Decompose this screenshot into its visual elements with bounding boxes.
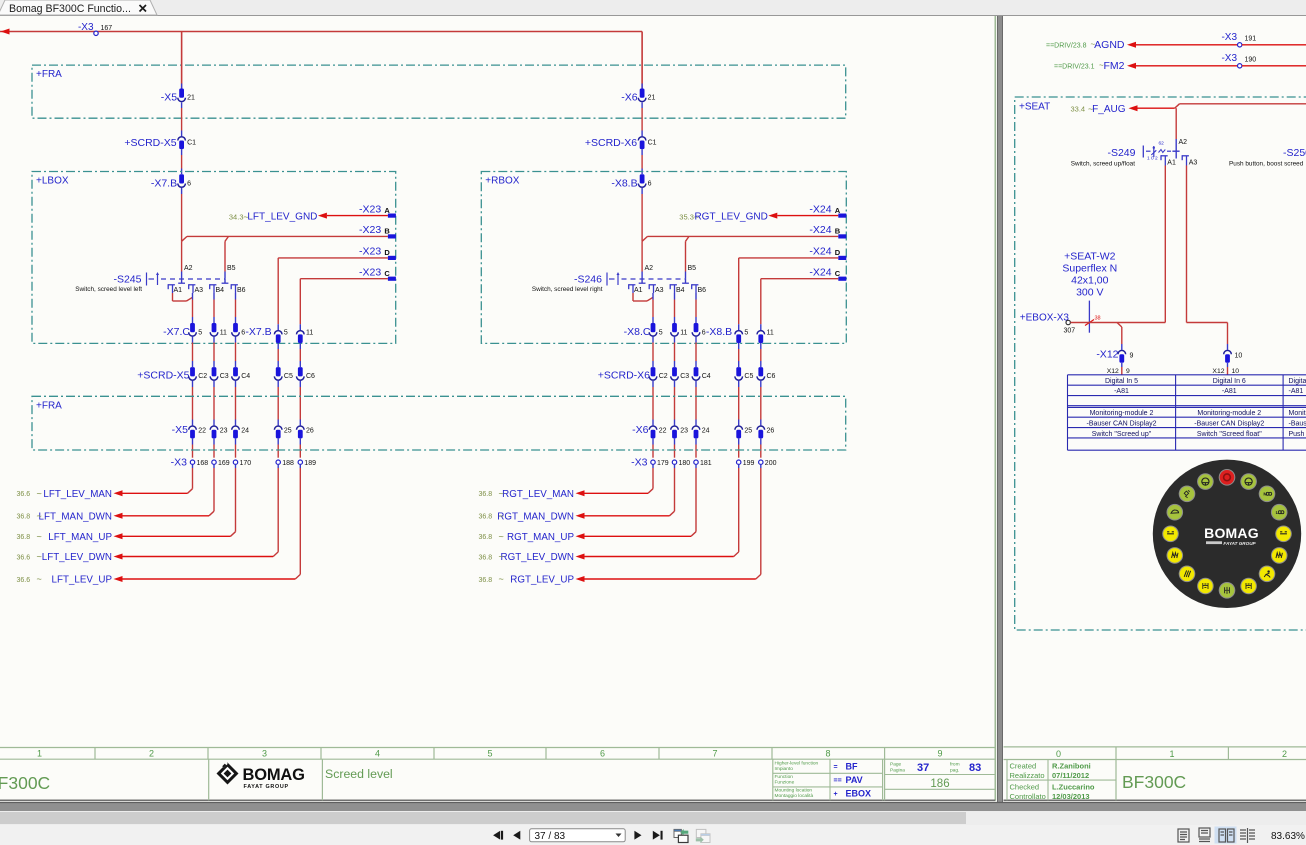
svg-text:B5: B5 <box>227 265 236 272</box>
svg-text:36.8: 36.8 <box>479 577 493 584</box>
switch -S249 (Switch, screed up/float) <box>1071 139 1198 168</box>
wire: to -X3 node <box>213 438 215 457</box>
svg-text:10: 10 <box>1232 368 1240 375</box>
svg-text:-X23: -X23 <box>359 246 381 258</box>
BOMAG control panel <box>1153 460 1301 608</box>
svg-text:C3: C3 <box>220 373 229 380</box>
location box +FRA (bottom) <box>32 396 846 450</box>
svg-text:-Bauser CAN Display2: -Bauser CAN Display2 <box>1194 421 1264 428</box>
svg-text:83.63%: 83.63% <box>1271 831 1305 842</box>
wire: to -X3 node <box>235 438 237 457</box>
connector -X23 pin A <box>359 203 396 217</box>
svg-text:FM2: FM2 <box>1104 60 1125 72</box>
svg-text:BF300C: BF300C <box>1122 772 1186 792</box>
signal arrow RGT_LEV_DWN <box>479 552 585 564</box>
svg-text:+SEAT: +SEAT <box>1019 102 1050 113</box>
wire: A1 elbow to column <box>173 293 193 301</box>
signal arrow LFT_LEV_MAN <box>17 488 123 500</box>
wire: to signal RGT_LEV_DWN <box>585 464 739 556</box>
svg-text:+SCRD-X6: +SCRD-X6 <box>598 370 650 382</box>
svg-text:BOMAG: BOMAG <box>1204 525 1259 541</box>
wire: to frame connector <box>192 381 194 426</box>
svg-text:=: = <box>834 764 838 771</box>
svg-text:191: 191 <box>1245 36 1257 43</box>
svg-text:Higher-level function: Higher-level function <box>775 760 819 766</box>
wire: to signal RGT_LEV_UP <box>585 464 761 579</box>
wire: to screed connector <box>652 337 654 368</box>
svg-text:C: C <box>835 269 841 278</box>
connector +SCRD-X5 pins C2-C6 <box>137 367 315 381</box>
svg-text:~: ~ <box>37 552 42 562</box>
svg-text:11: 11 <box>306 330 313 337</box>
svg-text:+: + <box>834 791 838 798</box>
signal arrow LFT_LEV_UP <box>17 574 123 586</box>
svg-text:==DRIV/23.8: ==DRIV/23.8 <box>1046 42 1087 49</box>
svg-text:BF: BF <box>846 762 858 772</box>
wire: to frame connector <box>213 381 215 426</box>
svg-text:+SCRD-X5: +SCRD-X5 <box>124 137 176 149</box>
svg-text:179: 179 <box>657 460 669 467</box>
connector -X12 pin 9 <box>1096 349 1133 363</box>
svg-text:Screed level: Screed level <box>325 767 393 781</box>
svg-text:38: 38 <box>1095 316 1101 322</box>
wire: switch feed to -X23 B <box>182 236 388 241</box>
svg-text:181: 181 <box>700 460 712 467</box>
svg-text:Bomag BF300C Functio...: Bomag BF300C Functio... <box>9 3 131 15</box>
connector -X23 pin B <box>359 224 396 238</box>
svg-text:A3: A3 <box>655 287 664 294</box>
svg-text:36.8: 36.8 <box>479 554 493 561</box>
svg-text:6: 6 <box>187 181 191 188</box>
svg-text:42x1,00: 42x1,00 <box>1071 275 1109 287</box>
svg-text:189: 189 <box>304 460 316 467</box>
right page background <box>1003 16 1306 802</box>
svg-text:300 V: 300 V <box>1076 287 1103 299</box>
signal arrow LFT_LEV_GND <box>229 212 388 223</box>
svg-text:07/11/2012: 07/11/2012 <box>1052 771 1089 780</box>
svg-text:Pagina: Pagina <box>890 768 905 774</box>
node +EBOX-X3 307 <box>1020 312 1075 334</box>
svg-text:-X6: -X6 <box>621 92 638 104</box>
wire: to -X3 node <box>299 438 301 457</box>
pin designators X12 9 / X12 10 <box>1107 368 1240 375</box>
svg-text:6: 6 <box>600 749 605 759</box>
wire: A1 drop <box>1164 166 1166 323</box>
wire: to frame connector <box>235 381 237 426</box>
right column numbers 0 1 2 <box>1056 749 1287 759</box>
svg-text:168: 168 <box>197 460 209 467</box>
svg-text:C1: C1 <box>648 140 657 147</box>
svg-text:22: 22 <box>198 428 206 435</box>
svg-text:37: 37 <box>917 762 929 774</box>
signal arrow RGT_LEV_UP <box>479 574 585 586</box>
signal arrow RGT_MAN_UP <box>479 531 585 543</box>
svg-text:-Bauser CAN Display2: -Bauser CAN Display2 <box>1086 421 1156 428</box>
svg-text:26: 26 <box>306 428 314 435</box>
svg-text:-X24: -X24 <box>809 246 831 258</box>
wire: to screed connector <box>738 343 740 367</box>
svg-text:-X3: -X3 <box>171 456 188 468</box>
svg-text:RGT_MAN_UP: RGT_MAN_UP <box>507 532 574 543</box>
wire: drop to -X5 21 <box>181 32 183 89</box>
svg-text:5: 5 <box>284 330 288 337</box>
svg-text:A2: A2 <box>1179 139 1188 146</box>
connector -X6 pin 21 <box>621 89 655 104</box>
svg-text:Function: Function <box>775 774 794 780</box>
svg-text:B6: B6 <box>237 287 246 294</box>
wire: to signal LFT_MAN_UP <box>123 464 236 536</box>
svg-text:~: ~ <box>499 488 504 498</box>
sheet title Screed level <box>325 767 393 781</box>
location box +SEAT <box>1015 97 1306 630</box>
svg-text:167: 167 <box>101 25 113 32</box>
svg-text:+FRA: +FRA <box>36 400 62 411</box>
BOMAG logo <box>217 761 305 790</box>
connector -X23 pin D <box>359 246 396 260</box>
wire: column drop <box>695 293 697 323</box>
svg-text:9: 9 <box>1130 353 1134 360</box>
svg-text:~: ~ <box>499 511 504 521</box>
switch -S245 (Switch, screed level left) <box>75 265 245 294</box>
svg-text:Page: Page <box>890 762 902 768</box>
wire: node to A1 with branch <box>1070 323 1165 350</box>
terminal strip -X3 <box>171 456 316 468</box>
svg-text:from: from <box>950 762 960 768</box>
title block grid <box>0 748 995 801</box>
svg-text:5: 5 <box>744 330 748 337</box>
gap shadow between pages <box>997 16 1003 802</box>
svg-text:5: 5 <box>487 749 492 759</box>
svg-text:9: 9 <box>937 749 942 759</box>
svg-text:35.3: 35.3 <box>679 213 694 222</box>
wire: to screed connector <box>760 343 762 367</box>
connector -X24 pin D <box>809 246 846 260</box>
wire: to screed connector <box>192 337 194 368</box>
wire: A1 elbow to column <box>633 293 653 301</box>
right page frame and title block <box>1004 747 1306 800</box>
svg-text:36.8: 36.8 <box>479 514 493 521</box>
svg-text:83: 83 <box>969 762 981 774</box>
svg-text:-X7.B: -X7.B <box>151 178 177 190</box>
svg-text:==: == <box>834 778 842 785</box>
svg-text:LFT_MAN_DWN: LFT_MAN_DWN <box>39 511 112 522</box>
signal arrow LFT_LEV_DWN <box>17 552 123 564</box>
connector -X7.B pins 5 11 <box>245 326 313 343</box>
svg-text:199: 199 <box>743 460 755 467</box>
wire: switch feed to -X24 B <box>642 236 838 241</box>
svg-text:C5: C5 <box>284 373 293 380</box>
svg-text:-A81: -A81 <box>1114 388 1129 395</box>
svg-text:B4: B4 <box>216 287 225 294</box>
svg-text:-X3: -X3 <box>78 22 94 33</box>
connector -X7.B pin 6 <box>151 174 191 189</box>
svg-text:pag.: pag. <box>950 769 959 774</box>
svg-text:+FRA: +FRA <box>36 69 62 80</box>
connector -X12 pin 10 <box>1224 350 1243 362</box>
svg-text:Push button, boost screed: Push button, boost screed <box>1229 161 1304 168</box>
svg-text:24: 24 <box>241 428 249 435</box>
svg-text:5: 5 <box>198 330 202 337</box>
svg-text:36.8: 36.8 <box>479 491 493 498</box>
connector -X23 pin C <box>359 267 396 281</box>
wire: column drop <box>674 293 676 323</box>
wire: to frame connector <box>695 381 697 426</box>
svg-text:FAYAT GROUP: FAYAT GROUP <box>244 784 289 790</box>
svg-text:~: ~ <box>37 488 42 498</box>
svg-text:R.Zaniboni: R.Zaniboni <box>1052 762 1091 771</box>
svg-text:-S246: -S246 <box>574 274 602 286</box>
svg-text:Controllato: Controllato <box>1010 792 1046 801</box>
wire: -X23 D to bottom connector <box>278 258 388 330</box>
connector -X24 pin A <box>809 203 846 217</box>
svg-text:3: 3 <box>262 749 267 759</box>
node -X3 167 <box>78 22 112 36</box>
svg-text:~: ~ <box>37 531 42 541</box>
wire: to frame connector <box>760 381 762 426</box>
svg-text:-A81: -A81 <box>1289 388 1304 395</box>
svg-text:LFT_LEV_GND: LFT_LEV_GND <box>247 212 317 223</box>
svg-text:A: A <box>835 206 841 215</box>
svg-text:10: 10 <box>1235 353 1243 360</box>
svg-text:+SEAT-W2: +SEAT-W2 <box>1064 251 1116 263</box>
svg-text:-X8.B: -X8.B <box>611 178 637 190</box>
svg-text:-X7.B: -X7.B <box>245 326 271 338</box>
wire: to signal RGT_MAN_UP <box>585 464 697 536</box>
wire: to screed connector <box>277 343 279 367</box>
svg-text:~: ~ <box>37 574 42 584</box>
svg-text:-A81: -A81 <box>1222 388 1237 395</box>
svg-text:36.6: 36.6 <box>17 554 31 561</box>
svg-text:36.6: 36.6 <box>17 577 31 584</box>
svg-text:25: 25 <box>744 428 752 435</box>
svg-text:5: 5 <box>659 330 663 337</box>
svg-text:188: 188 <box>282 460 294 467</box>
wire: to signal RGT_MAN_DWN <box>585 464 675 515</box>
svg-text:26: 26 <box>767 428 775 435</box>
connector -X24 pin C <box>809 267 846 281</box>
wire: pins into table <box>1122 363 1228 375</box>
wire: to signal LFT_LEV_UP <box>123 464 301 579</box>
svg-text:~: ~ <box>37 511 42 521</box>
svg-text:Created: Created <box>1010 762 1037 771</box>
svg-text:B4: B4 <box>676 287 685 294</box>
svg-text:C6: C6 <box>767 373 776 380</box>
title text BF300C (right) <box>1122 772 1186 792</box>
svg-text:-S250: -S250 <box>1283 147 1306 159</box>
svg-text:+LBOX: +LBOX <box>36 176 69 187</box>
switch -S246 (Switch, screed level right) <box>532 265 706 294</box>
svg-text:-X23: -X23 <box>359 267 381 279</box>
svg-text:C4: C4 <box>702 373 711 380</box>
signal arrow LFT_MAN_DWN <box>17 511 123 523</box>
svg-text:+RBOX: +RBOX <box>485 176 520 187</box>
wire: to frame connector <box>738 381 740 426</box>
svg-text:-X3: -X3 <box>1221 32 1237 43</box>
svg-text:-X8.C: -X8.C <box>624 326 651 338</box>
svg-text:7: 7 <box>712 749 717 759</box>
svg-text:FAYAT GROUP: FAYAT GROUP <box>1223 541 1256 546</box>
column numbers 1-9 <box>37 749 943 759</box>
connector -X8.B pin 6 <box>611 174 651 189</box>
wire: top feed from -X3 167 <box>0 29 642 35</box>
svg-text:170: 170 <box>240 460 252 467</box>
connector -X5 pin 21 <box>161 89 195 104</box>
svg-text:Switch "Screed float": Switch "Screed float" <box>1197 431 1262 438</box>
svg-text:-X5: -X5 <box>161 92 178 104</box>
svg-text:RGT_LEV_DWN: RGT_LEV_DWN <box>501 552 575 563</box>
svg-text:12/03/2013: 12/03/2013 <box>1052 792 1090 801</box>
svg-text:2: 2 <box>149 749 154 759</box>
wire: -X23 C to bottom connector <box>300 279 388 330</box>
wire: B5 contact drop <box>685 241 687 278</box>
wire: to -X3 node <box>192 438 194 457</box>
wire: to frame connector <box>674 381 676 426</box>
svg-text:LFT_LEV_UP: LFT_LEV_UP <box>52 575 113 586</box>
wire: column drop <box>213 293 215 323</box>
svg-text:A3: A3 <box>1189 160 1198 167</box>
connector -X8.B pins 5 11 <box>706 326 774 343</box>
svg-text:Superflex N: Superflex N <box>1062 263 1117 275</box>
svg-text:2: 2 <box>1282 749 1287 759</box>
connector +SCRD-X6 pins C2-C6 <box>598 367 776 381</box>
svg-text:36.8: 36.8 <box>17 514 31 521</box>
svg-text:PAV: PAV <box>846 775 863 785</box>
created/checked table <box>1007 760 1116 802</box>
wire: A2 contact drop <box>181 241 183 278</box>
svg-text:A1: A1 <box>174 287 183 294</box>
svg-text:190: 190 <box>1245 57 1257 64</box>
svg-text:-Bauser CAN D: -Bauser CAN D <box>1289 421 1306 428</box>
svg-text:4: 4 <box>375 749 380 759</box>
wire: column drop <box>235 293 237 323</box>
svg-text:C3: C3 <box>680 373 689 380</box>
svg-text:A2: A2 <box>184 265 193 272</box>
svg-text:169: 169 <box>218 460 230 467</box>
svg-text:RGT_LEV_MAN: RGT_LEV_MAN <box>502 489 574 500</box>
svg-text:RGT_LEV_UP: RGT_LEV_UP <box>510 575 574 586</box>
svg-text:Realizzato: Realizzato <box>1010 771 1045 780</box>
switch -S250 (clipped at page edge) <box>1229 147 1306 168</box>
svg-text:Checked: Checked <box>1010 783 1040 792</box>
wire: main vertical segments <box>181 32 183 242</box>
svg-text:L.Zuccarino: L.Zuccarino <box>1052 783 1095 792</box>
svg-text:C2: C2 <box>198 373 207 380</box>
svg-text:-X23: -X23 <box>359 224 381 236</box>
wire: to frame connector <box>652 381 654 426</box>
wire: -X24 C to bottom connector <box>761 279 839 330</box>
wire: to screed connector <box>674 337 676 368</box>
svg-text:36.8: 36.8 <box>479 534 493 541</box>
connector +SCRD-X6 pin C1 <box>585 137 657 149</box>
wire: F_AUG feed with jog <box>1175 104 1306 159</box>
svg-text:==DRIV/23.1: ==DRIV/23.1 <box>1054 63 1095 70</box>
svg-text:Mounting location: Mounting location <box>775 787 813 793</box>
connector -X24 pin B <box>809 224 846 238</box>
wire: to screed connector <box>235 337 237 368</box>
svg-text:D: D <box>384 248 390 257</box>
connector -X7.C pins 5 11 6 <box>163 323 245 338</box>
svg-text:-S249: -S249 <box>1107 147 1135 159</box>
svg-text:Switch, screed level right: Switch, screed level right <box>532 286 603 293</box>
svg-text:-X8.B: -X8.B <box>706 326 732 338</box>
signal arrow F_AUG <box>1071 104 1175 115</box>
svg-text:Digital In 6: Digital In 6 <box>1213 378 1246 385</box>
svg-text:A3: A3 <box>195 287 204 294</box>
wire: B5 contact drop <box>224 241 226 278</box>
svg-text:180: 180 <box>679 460 691 467</box>
svg-text:C1: C1 <box>187 140 196 147</box>
connector +SCRD-X5 pin C1 <box>124 137 196 149</box>
svg-text:1: 1 <box>1169 749 1174 759</box>
wire: to signal LFT_LEV_MAN <box>123 464 193 493</box>
svg-text:Monitoring-mo: Monitoring-mo <box>1289 410 1306 417</box>
svg-text:36.6: 36.6 <box>17 491 31 498</box>
svg-text:B: B <box>384 227 390 236</box>
signal arrow RGT_MAN_DWN <box>479 511 585 523</box>
svg-text:LFT_MAN_UP: LFT_MAN_UP <box>48 532 112 543</box>
svg-text:Monitoring-module 2: Monitoring-module 2 <box>1090 410 1154 417</box>
wire: to frame connector <box>277 381 279 426</box>
svg-text:~: ~ <box>499 574 504 584</box>
wire: to -X3 node <box>760 438 762 457</box>
svg-text:8: 8 <box>825 749 830 759</box>
terminal strip -X3 <box>631 456 776 468</box>
wire: to frame connector <box>299 381 301 426</box>
svg-text:21: 21 <box>648 95 656 102</box>
wire: to -X3 node <box>738 438 740 457</box>
svg-text:~: ~ <box>499 531 504 541</box>
svg-text:C: C <box>384 269 390 278</box>
connector -X5 pins 22-26 <box>172 424 314 438</box>
wire: to -X3 node <box>277 438 279 457</box>
svg-text:C4: C4 <box>241 373 250 380</box>
svg-text:C2: C2 <box>659 373 668 380</box>
node -X3 190 <box>1221 53 1306 68</box>
svg-text:6: 6 <box>648 181 652 188</box>
svg-text:11: 11 <box>220 330 227 337</box>
wire: column drop <box>192 293 194 323</box>
wire: to screed connector <box>213 337 215 368</box>
svg-text:B: B <box>835 227 841 236</box>
svg-text:A1: A1 <box>1167 160 1176 167</box>
cable +SEAT-W2 <box>1062 251 1117 333</box>
svg-text:1 0 2: 1 0 2 <box>1147 156 1158 162</box>
svg-text:Monitoring-module 2: Monitoring-module 2 <box>1197 410 1261 417</box>
wire: drop to -X6 21 <box>641 32 643 89</box>
PLC assignment table <box>1068 375 1306 450</box>
location box +RBOX <box>481 172 846 344</box>
wire: to -X3 node <box>695 438 697 457</box>
svg-text:LFT_LEV_MAN: LFT_LEV_MAN <box>43 489 112 500</box>
signal arrow FM2 <box>1054 60 1238 72</box>
svg-text:23: 23 <box>220 428 228 435</box>
signal arrow LFT_MAN_UP <box>17 531 123 543</box>
svg-text:-X24: -X24 <box>809 203 831 215</box>
svg-text:25: 25 <box>284 428 292 435</box>
svg-text:Digital In 7: Digital In 7 <box>1289 378 1306 385</box>
svg-text:Switch "Screed up": Switch "Screed up" <box>1092 431 1152 438</box>
node -X3 191 <box>1221 32 1306 47</box>
page number block <box>885 762 996 790</box>
signal arrow RGT_LEV_GND <box>679 212 838 223</box>
svg-text:A: A <box>384 206 390 215</box>
svg-text:-X24: -X24 <box>809 267 831 279</box>
svg-text:37 / 83: 37 / 83 <box>535 831 566 842</box>
signal arrow RGT_LEV_MAN <box>479 488 585 500</box>
wire: to -X3 node <box>652 438 654 457</box>
svg-text:C6: C6 <box>306 373 315 380</box>
wire: to screed connector <box>299 343 301 367</box>
